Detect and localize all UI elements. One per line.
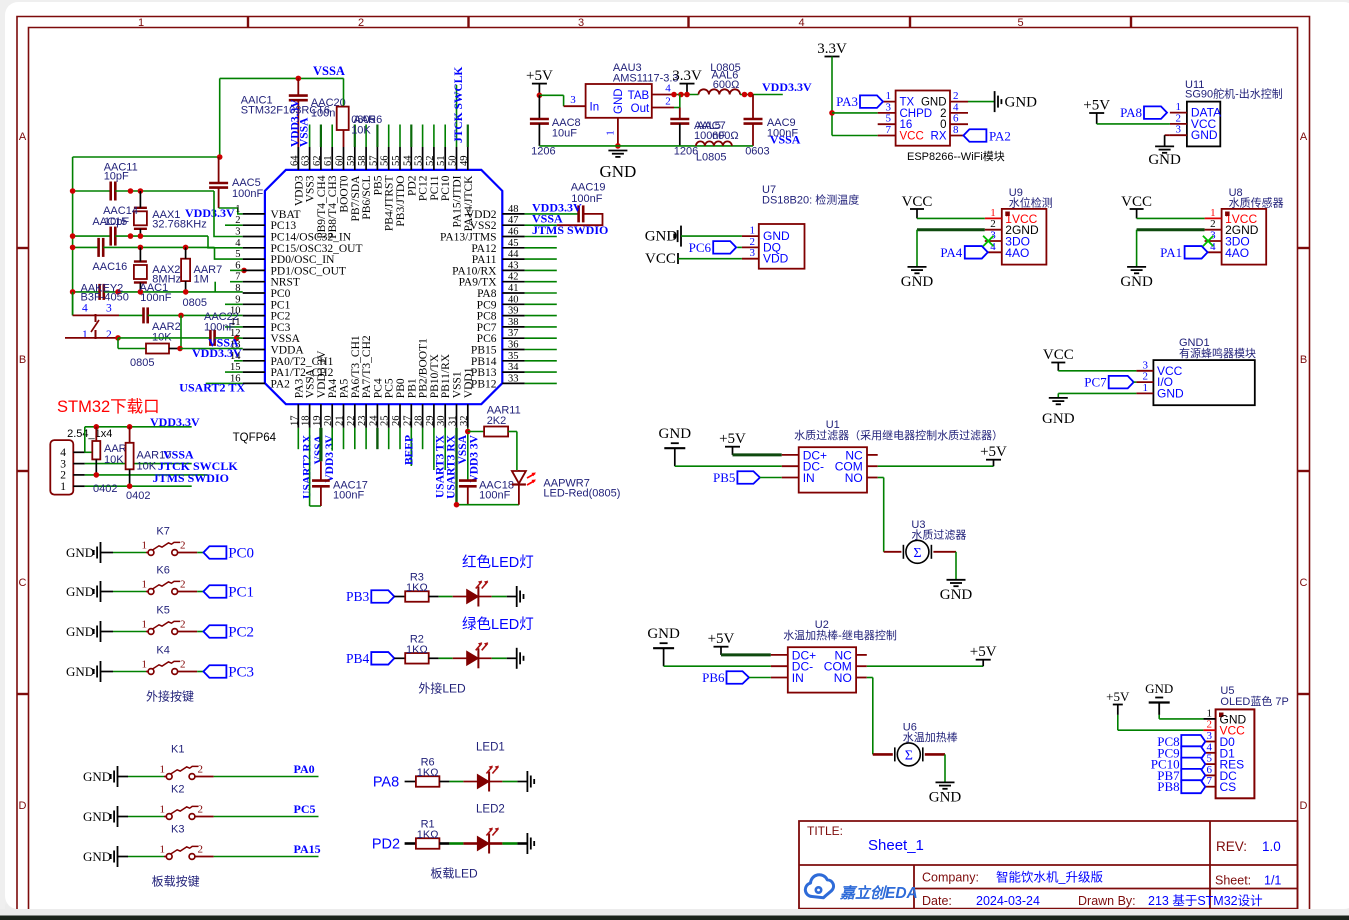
svg-text:60: 60 bbox=[335, 156, 346, 167]
svg-text:0: 0 bbox=[940, 119, 946, 131]
svg-text:1: 1 bbox=[142, 579, 148, 591]
svg-text:NO: NO bbox=[834, 671, 852, 685]
svg-text:62: 62 bbox=[312, 156, 323, 167]
svg-text:54: 54 bbox=[402, 155, 413, 166]
svg-text:3: 3 bbox=[750, 247, 756, 259]
svg-text:2: 2 bbox=[180, 659, 186, 671]
svg-text:AAC16: AAC16 bbox=[92, 261, 127, 273]
svg-text:7: 7 bbox=[886, 124, 892, 136]
svg-text:PB9/T4_CH4: PB9/T4_CH4 bbox=[316, 175, 328, 239]
svg-text:PA3: PA3 bbox=[836, 94, 858, 109]
svg-text:2: 2 bbox=[1143, 371, 1149, 383]
svg-text:PB11/RX: PB11/RX bbox=[440, 353, 452, 398]
svg-text:2: 2 bbox=[180, 540, 186, 552]
svg-text:6: 6 bbox=[235, 260, 240, 271]
svg-text:D: D bbox=[1300, 800, 1308, 812]
svg-text:PA5: PA5 bbox=[339, 379, 351, 399]
svg-text:PC7: PC7 bbox=[477, 322, 497, 334]
svg-text:AAC19: AAC19 bbox=[571, 182, 606, 194]
svg-text:PA8: PA8 bbox=[477, 288, 497, 300]
svg-text:水位检测: 水位检测 bbox=[1009, 196, 1053, 210]
svg-text:NO: NO bbox=[845, 471, 863, 485]
svg-text:0402: 0402 bbox=[93, 483, 117, 495]
svg-text:VSS1: VSS1 bbox=[452, 371, 464, 398]
svg-text:40: 40 bbox=[508, 294, 519, 305]
svg-text:B: B bbox=[19, 354, 26, 366]
svg-text:PB4/JTRST: PB4/JTRST bbox=[384, 176, 396, 232]
svg-text:GND: GND bbox=[66, 545, 94, 560]
svg-text:4: 4 bbox=[82, 303, 88, 315]
svg-text:Drawn By:: Drawn By: bbox=[1078, 894, 1136, 908]
svg-text:Out: Out bbox=[631, 103, 650, 115]
svg-text:RX: RX bbox=[931, 131, 947, 143]
svg-text:PA6/T3_CH1: PA6/T3_CH1 bbox=[350, 335, 362, 398]
svg-text:PB0: PB0 bbox=[395, 378, 407, 398]
svg-text:K3: K3 bbox=[171, 824, 184, 836]
svg-text:3: 3 bbox=[578, 17, 584, 29]
svg-text:JTMS SWDIO: JTMS SWDIO bbox=[153, 471, 229, 485]
svg-text:34: 34 bbox=[508, 362, 519, 373]
svg-text:2: 2 bbox=[953, 90, 959, 102]
svg-text:GND: GND bbox=[940, 587, 973, 603]
svg-text:PC2: PC2 bbox=[271, 311, 291, 323]
svg-text:0805: 0805 bbox=[130, 357, 154, 369]
svg-text:PC6: PC6 bbox=[689, 240, 712, 255]
svg-text:VSSA: VSSA bbox=[299, 117, 311, 147]
svg-text:GND: GND bbox=[66, 664, 94, 679]
svg-text:USART2 RX: USART2 RX bbox=[302, 434, 314, 499]
svg-text:GND: GND bbox=[645, 229, 678, 245]
svg-text:11: 11 bbox=[230, 317, 240, 328]
svg-text:2: 2 bbox=[60, 470, 66, 482]
svg-text:GND: GND bbox=[66, 584, 94, 599]
svg-text:0805: 0805 bbox=[183, 297, 207, 309]
svg-text:3: 3 bbox=[106, 303, 112, 315]
svg-text:OLED蓝色 7P: OLED蓝色 7P bbox=[1220, 694, 1288, 708]
svg-text:14: 14 bbox=[230, 351, 241, 362]
svg-text:外接LED: 外接LED bbox=[418, 681, 466, 696]
svg-text:PC1: PC1 bbox=[228, 585, 254, 601]
svg-text:2: 2 bbox=[665, 96, 671, 108]
svg-text:1: 1 bbox=[160, 804, 166, 816]
svg-text:VSSA: VSSA bbox=[770, 132, 801, 146]
svg-text:PA7/T3_CH2: PA7/T3_CH2 bbox=[361, 335, 373, 398]
svg-text:PB5: PB5 bbox=[372, 175, 384, 195]
svg-text:2: 2 bbox=[940, 108, 946, 120]
svg-text:100nF: 100nF bbox=[333, 489, 364, 501]
svg-text:PB8/T4_CH3: PB8/T4_CH3 bbox=[327, 175, 339, 239]
svg-text:VBAT: VBAT bbox=[271, 209, 301, 221]
svg-text:3: 3 bbox=[886, 101, 892, 113]
svg-text:DS18B20: 检测温度: DS18B20: 检测温度 bbox=[762, 193, 859, 207]
svg-text:K7: K7 bbox=[156, 526, 169, 538]
svg-text:红色LED灯: 红色LED灯 bbox=[462, 554, 534, 571]
svg-text:PC3: PC3 bbox=[271, 322, 291, 334]
svg-text:PB4: PB4 bbox=[346, 651, 370, 666]
svg-text:45: 45 bbox=[508, 238, 519, 249]
svg-text:VDD1: VDD1 bbox=[463, 367, 475, 398]
svg-text:TAB: TAB bbox=[628, 90, 650, 102]
svg-text:28: 28 bbox=[414, 416, 425, 427]
svg-text:10K: 10K bbox=[104, 454, 124, 466]
svg-text:1: 1 bbox=[990, 207, 996, 219]
svg-text:VDDA: VDDA bbox=[271, 345, 305, 357]
svg-text:板载LED: 板载LED bbox=[430, 867, 478, 881]
svg-text:In: In bbox=[590, 102, 600, 114]
svg-text:49: 49 bbox=[459, 156, 470, 167]
svg-text:5: 5 bbox=[1207, 753, 1213, 765]
svg-text:PD0/OSC_IN: PD0/OSC_IN bbox=[271, 254, 336, 266]
svg-text:2: 2 bbox=[180, 619, 186, 631]
svg-text:10uF: 10uF bbox=[552, 128, 577, 140]
svg-text:PB2/BOOT1: PB2/BOOT1 bbox=[418, 338, 430, 398]
svg-text:+5V: +5V bbox=[980, 444, 1007, 460]
svg-text:27: 27 bbox=[402, 416, 413, 427]
svg-text:PC0: PC0 bbox=[228, 546, 254, 562]
svg-text:GND: GND bbox=[613, 88, 625, 114]
svg-text:1: 1 bbox=[142, 659, 148, 671]
svg-text:C: C bbox=[1300, 577, 1308, 589]
svg-text:Σ: Σ bbox=[905, 748, 913, 763]
svg-text:GND: GND bbox=[1005, 95, 1038, 111]
svg-text:4AO: 4AO bbox=[1005, 246, 1029, 260]
svg-text:47: 47 bbox=[508, 215, 519, 226]
svg-text:6: 6 bbox=[1207, 764, 1213, 776]
svg-text:4AO: 4AO bbox=[1225, 246, 1249, 260]
svg-text:VCC: VCC bbox=[1043, 347, 1074, 363]
svg-text:嘉立创: 嘉立创 bbox=[839, 884, 888, 902]
svg-text:2: 2 bbox=[1210, 218, 1216, 230]
svg-text:GND: GND bbox=[1120, 274, 1153, 290]
svg-text:43: 43 bbox=[508, 260, 519, 271]
svg-text:7: 7 bbox=[235, 272, 240, 283]
svg-text:48: 48 bbox=[508, 204, 519, 215]
svg-text:100nF: 100nF bbox=[232, 188, 263, 200]
svg-text:1206: 1206 bbox=[531, 146, 555, 158]
svg-text:PA2: PA2 bbox=[271, 378, 291, 390]
svg-text:2.54_1x4: 2.54_1x4 bbox=[67, 428, 112, 440]
svg-text:24: 24 bbox=[368, 415, 379, 426]
svg-text:29: 29 bbox=[425, 416, 436, 427]
svg-text:4: 4 bbox=[798, 17, 804, 29]
svg-text:VSSA: VSSA bbox=[271, 333, 301, 345]
svg-text:3: 3 bbox=[60, 458, 66, 470]
svg-text:A: A bbox=[19, 131, 27, 143]
svg-text:4: 4 bbox=[235, 238, 241, 249]
svg-text:39: 39 bbox=[508, 306, 519, 317]
svg-text:0603: 0603 bbox=[745, 146, 769, 158]
svg-text:57: 57 bbox=[368, 156, 379, 167]
svg-text:8: 8 bbox=[235, 283, 240, 294]
svg-text:PA12: PA12 bbox=[471, 243, 496, 255]
svg-text:2: 2 bbox=[180, 579, 186, 591]
svg-text:1: 1 bbox=[160, 844, 166, 856]
svg-text:PC8: PC8 bbox=[477, 311, 497, 323]
svg-text:64: 64 bbox=[289, 155, 300, 166]
svg-text:53: 53 bbox=[414, 156, 425, 167]
svg-text:7: 7 bbox=[1207, 775, 1213, 787]
svg-text:21: 21 bbox=[335, 416, 346, 427]
svg-text:VCC: VCC bbox=[902, 194, 933, 210]
svg-text:46: 46 bbox=[508, 227, 519, 238]
svg-text:2024-03-24: 2024-03-24 bbox=[976, 894, 1040, 908]
svg-text:31: 31 bbox=[448, 416, 459, 427]
svg-text:2: 2 bbox=[198, 844, 204, 856]
svg-text:水质过滤器（采用继电器控制水质过滤器）: 水质过滤器（采用继电器控制水质过滤器） bbox=[794, 428, 1003, 442]
svg-text:2: 2 bbox=[1207, 719, 1213, 731]
svg-text:PA0: PA0 bbox=[294, 762, 315, 776]
svg-text:PC12: PC12 bbox=[418, 175, 430, 201]
svg-text:PB14: PB14 bbox=[471, 356, 497, 368]
svg-text:PB10/TX: PB10/TX bbox=[429, 353, 441, 398]
svg-text:1: 1 bbox=[886, 90, 892, 102]
svg-text:22: 22 bbox=[346, 416, 357, 427]
svg-text:PC5: PC5 bbox=[384, 378, 396, 398]
svg-text:35: 35 bbox=[508, 351, 519, 362]
svg-text:GND: GND bbox=[659, 426, 692, 442]
svg-text:PA15: PA15 bbox=[294, 842, 321, 856]
svg-text:5: 5 bbox=[886, 113, 892, 125]
svg-text:4: 4 bbox=[1210, 241, 1216, 253]
svg-text:STM32F103RCT6: STM32F103RCT6 bbox=[241, 104, 330, 116]
svg-text:PB5: PB5 bbox=[713, 470, 735, 485]
svg-text:PA8: PA8 bbox=[1120, 105, 1142, 120]
svg-text:Company:: Company: bbox=[922, 871, 979, 885]
svg-text:VCC: VCC bbox=[1121, 194, 1152, 210]
svg-text:1: 1 bbox=[82, 329, 88, 341]
svg-text:PB6/SCL: PB6/SCL bbox=[361, 176, 373, 220]
svg-text:41: 41 bbox=[508, 283, 519, 294]
svg-text:PC2: PC2 bbox=[228, 625, 254, 641]
svg-text:1: 1 bbox=[160, 764, 166, 776]
svg-text:3: 3 bbox=[1207, 730, 1213, 742]
svg-text:TQFP64: TQFP64 bbox=[233, 432, 277, 444]
svg-text:4: 4 bbox=[1207, 741, 1213, 753]
svg-text:44: 44 bbox=[508, 249, 519, 260]
svg-text:PA1: PA1 bbox=[1160, 245, 1182, 260]
svg-text:3: 3 bbox=[990, 230, 996, 242]
svg-text:PC10: PC10 bbox=[440, 175, 452, 201]
svg-text:智能饮水机_升级版: 智能饮水机_升级版 bbox=[996, 870, 1103, 885]
svg-text:1KΩ: 1KΩ bbox=[417, 829, 439, 841]
svg-text:USART3 TX: USART3 TX bbox=[434, 434, 446, 498]
svg-text:VDD: VDD bbox=[763, 252, 789, 266]
svg-text:12: 12 bbox=[230, 328, 241, 339]
svg-text:PC1: PC1 bbox=[271, 299, 291, 311]
svg-text:JTCK SWCLK: JTCK SWCLK bbox=[453, 67, 465, 143]
svg-text:Date:: Date: bbox=[922, 894, 952, 908]
svg-text:VSSA: VSSA bbox=[313, 434, 325, 464]
svg-text:GND: GND bbox=[83, 849, 111, 864]
svg-text:STM32下载口: STM32下载口 bbox=[57, 397, 160, 416]
svg-text:GND: GND bbox=[647, 626, 680, 642]
svg-text:32: 32 bbox=[459, 416, 470, 427]
svg-text:100nF: 100nF bbox=[140, 292, 171, 304]
svg-text:13: 13 bbox=[230, 340, 241, 351]
svg-text:17: 17 bbox=[289, 416, 300, 427]
svg-text:PA9/TX: PA9/TX bbox=[459, 277, 498, 289]
svg-text:BOOT0: BOOT0 bbox=[339, 175, 351, 212]
svg-text:1: 1 bbox=[142, 619, 148, 631]
svg-text:K4: K4 bbox=[156, 645, 169, 657]
svg-text:A: A bbox=[1300, 131, 1308, 143]
svg-text:K5: K5 bbox=[156, 605, 169, 617]
svg-text:1: 1 bbox=[1207, 707, 1213, 719]
svg-text:PC11: PC11 bbox=[429, 175, 441, 200]
svg-text:K1: K1 bbox=[171, 744, 184, 756]
svg-text:GND: GND bbox=[921, 97, 947, 109]
svg-text:PA15/JTDI: PA15/JTDI bbox=[452, 175, 464, 227]
svg-text:50: 50 bbox=[448, 156, 459, 167]
svg-text:8: 8 bbox=[953, 124, 959, 136]
svg-text:PC9: PC9 bbox=[477, 299, 497, 311]
svg-text:板载按键: 板载按键 bbox=[152, 875, 200, 889]
svg-text:PC0: PC0 bbox=[271, 288, 291, 300]
svg-text:55: 55 bbox=[391, 156, 402, 167]
svg-text:10pF: 10pF bbox=[104, 216, 129, 228]
svg-text:10pF: 10pF bbox=[104, 171, 129, 183]
svg-text:+5V: +5V bbox=[719, 431, 746, 447]
svg-text:VDD3 3V: VDD3 3V bbox=[316, 350, 328, 398]
svg-text:GND: GND bbox=[1145, 681, 1173, 696]
svg-text:D: D bbox=[19, 800, 27, 812]
svg-text:2: 2 bbox=[1176, 112, 1182, 124]
svg-text:100nF: 100nF bbox=[479, 489, 510, 501]
svg-text:+5V: +5V bbox=[1106, 689, 1130, 704]
svg-text:GND: GND bbox=[1191, 128, 1218, 142]
svg-text:2: 2 bbox=[198, 764, 204, 776]
svg-text:GND: GND bbox=[929, 789, 962, 805]
svg-text:K2: K2 bbox=[171, 784, 184, 796]
svg-text:PB7/SDA: PB7/SDA bbox=[350, 175, 362, 222]
svg-text:GND: GND bbox=[1148, 152, 1181, 168]
svg-text:PA14/JTCK: PA14/JTCK bbox=[463, 175, 475, 232]
svg-text:GND: GND bbox=[83, 769, 111, 784]
svg-text:PD2: PD2 bbox=[406, 175, 418, 196]
svg-text:36: 36 bbox=[508, 340, 519, 351]
svg-text:213 基于STM32设计: 213 基于STM32设计 bbox=[1148, 893, 1263, 908]
svg-text:GND: GND bbox=[66, 624, 94, 639]
svg-text:4: 4 bbox=[953, 101, 959, 113]
svg-text:TITLE:: TITLE: bbox=[807, 824, 843, 838]
svg-text:1: 1 bbox=[60, 481, 66, 493]
svg-text:1: 1 bbox=[1143, 382, 1149, 394]
svg-text:CHPD: CHPD bbox=[900, 108, 933, 120]
svg-text:PD2: PD2 bbox=[372, 837, 400, 853]
svg-text:VDD3.3V: VDD3.3V bbox=[762, 80, 812, 94]
svg-text:NRST: NRST bbox=[271, 277, 300, 289]
svg-text:PC4: PC4 bbox=[372, 378, 384, 398]
svg-text:1206: 1206 bbox=[674, 146, 698, 158]
svg-text:38: 38 bbox=[508, 317, 519, 328]
svg-text:PC5: PC5 bbox=[294, 802, 316, 816]
svg-text:PB8: PB8 bbox=[1157, 779, 1179, 794]
svg-text:1: 1 bbox=[750, 225, 756, 237]
svg-text:水温加热棒-继电器控制: 水温加热棒-继电器控制 bbox=[783, 628, 897, 642]
svg-text:PB1: PB1 bbox=[406, 378, 418, 398]
svg-text:0402: 0402 bbox=[126, 490, 150, 502]
svg-text:16: 16 bbox=[230, 373, 241, 384]
svg-text:2: 2 bbox=[198, 804, 204, 816]
svg-text:1.0: 1.0 bbox=[1262, 839, 1281, 854]
svg-text:Sheet_1: Sheet_1 bbox=[868, 837, 924, 854]
svg-text:3.3V: 3.3V bbox=[817, 41, 847, 57]
svg-text:33: 33 bbox=[508, 373, 519, 384]
svg-text:PA4: PA4 bbox=[940, 245, 962, 260]
svg-text:水温加热棒: 水温加热棒 bbox=[903, 730, 958, 744]
svg-text:+5V: +5V bbox=[1083, 98, 1110, 114]
svg-text:EDA: EDA bbox=[885, 885, 918, 902]
svg-text:C: C bbox=[19, 577, 27, 589]
svg-text:PC15/OSC32_OUT: PC15/OSC32_OUT bbox=[271, 243, 363, 255]
svg-text:1KΩ: 1KΩ bbox=[417, 767, 439, 779]
svg-text:61: 61 bbox=[323, 156, 334, 167]
svg-text:3: 3 bbox=[1176, 124, 1182, 136]
svg-text:PB3/JTDO: PB3/JTDO bbox=[395, 176, 407, 227]
svg-text:52: 52 bbox=[425, 156, 436, 167]
svg-text:1KΩ: 1KΩ bbox=[406, 644, 428, 656]
svg-text:外接按键: 外接按键 bbox=[146, 689, 194, 704]
svg-text:1: 1 bbox=[235, 204, 240, 215]
svg-text:10K: 10K bbox=[351, 125, 371, 137]
svg-text:BEEP: BEEP bbox=[403, 435, 415, 465]
svg-text:PC3: PC3 bbox=[228, 665, 254, 681]
svg-text:9: 9 bbox=[235, 294, 240, 305]
svg-text:5: 5 bbox=[1017, 17, 1023, 29]
svg-text:PA10/RX: PA10/RX bbox=[452, 265, 497, 277]
svg-text:26: 26 bbox=[391, 416, 402, 427]
svg-text:+5V: +5V bbox=[526, 68, 553, 84]
svg-text:2K2: 2K2 bbox=[487, 415, 507, 427]
svg-text:10: 10 bbox=[230, 306, 241, 317]
svg-text:56: 56 bbox=[380, 156, 391, 167]
svg-text:PA11: PA11 bbox=[472, 254, 497, 266]
svg-text:VCC: VCC bbox=[645, 251, 676, 267]
svg-text:59: 59 bbox=[346, 156, 357, 167]
svg-text:VSSA: VSSA bbox=[305, 368, 317, 398]
svg-text:5: 5 bbox=[235, 249, 240, 260]
svg-text:IN: IN bbox=[792, 671, 804, 685]
svg-text:REV:: REV: bbox=[1216, 839, 1247, 854]
svg-text:3: 3 bbox=[570, 94, 576, 106]
svg-text:有源蜂鸣器模块: 有源蜂鸣器模块 bbox=[1179, 346, 1256, 360]
svg-text:3.3V: 3.3V bbox=[672, 68, 702, 84]
svg-text:2: 2 bbox=[358, 17, 364, 29]
svg-text:PC7: PC7 bbox=[1084, 375, 1107, 390]
svg-text:2: 2 bbox=[235, 215, 240, 226]
svg-text:VSSA: VSSA bbox=[313, 64, 345, 78]
svg-text:16: 16 bbox=[900, 119, 913, 131]
svg-text:51: 51 bbox=[436, 156, 447, 167]
svg-text:PB15: PB15 bbox=[471, 345, 497, 357]
svg-text:3: 3 bbox=[235, 227, 240, 238]
svg-text:水质过滤器: 水质过滤器 bbox=[911, 528, 966, 541]
svg-text:K6: K6 bbox=[156, 565, 169, 577]
svg-text:绿色LED灯: 绿色LED灯 bbox=[462, 616, 534, 633]
svg-text:TX: TX bbox=[900, 97, 915, 109]
svg-text:VDD3 3V: VDD3 3V bbox=[324, 434, 336, 482]
svg-text:LED-Red(0805): LED-Red(0805) bbox=[543, 488, 620, 500]
svg-text:PC14/OSC32_IN: PC14/OSC32_IN bbox=[271, 232, 352, 244]
svg-text:+5V: +5V bbox=[970, 644, 997, 660]
svg-text:58: 58 bbox=[357, 156, 368, 167]
svg-text:B: B bbox=[1300, 354, 1307, 366]
svg-text:JTMS SWDIO: JTMS SWDIO bbox=[532, 223, 608, 237]
svg-text:15: 15 bbox=[230, 362, 241, 373]
svg-text:SG90舵机-出水控制: SG90舵机-出水控制 bbox=[1185, 87, 1283, 101]
svg-text:VSS3: VSS3 bbox=[305, 175, 317, 202]
svg-text:20: 20 bbox=[323, 416, 334, 427]
